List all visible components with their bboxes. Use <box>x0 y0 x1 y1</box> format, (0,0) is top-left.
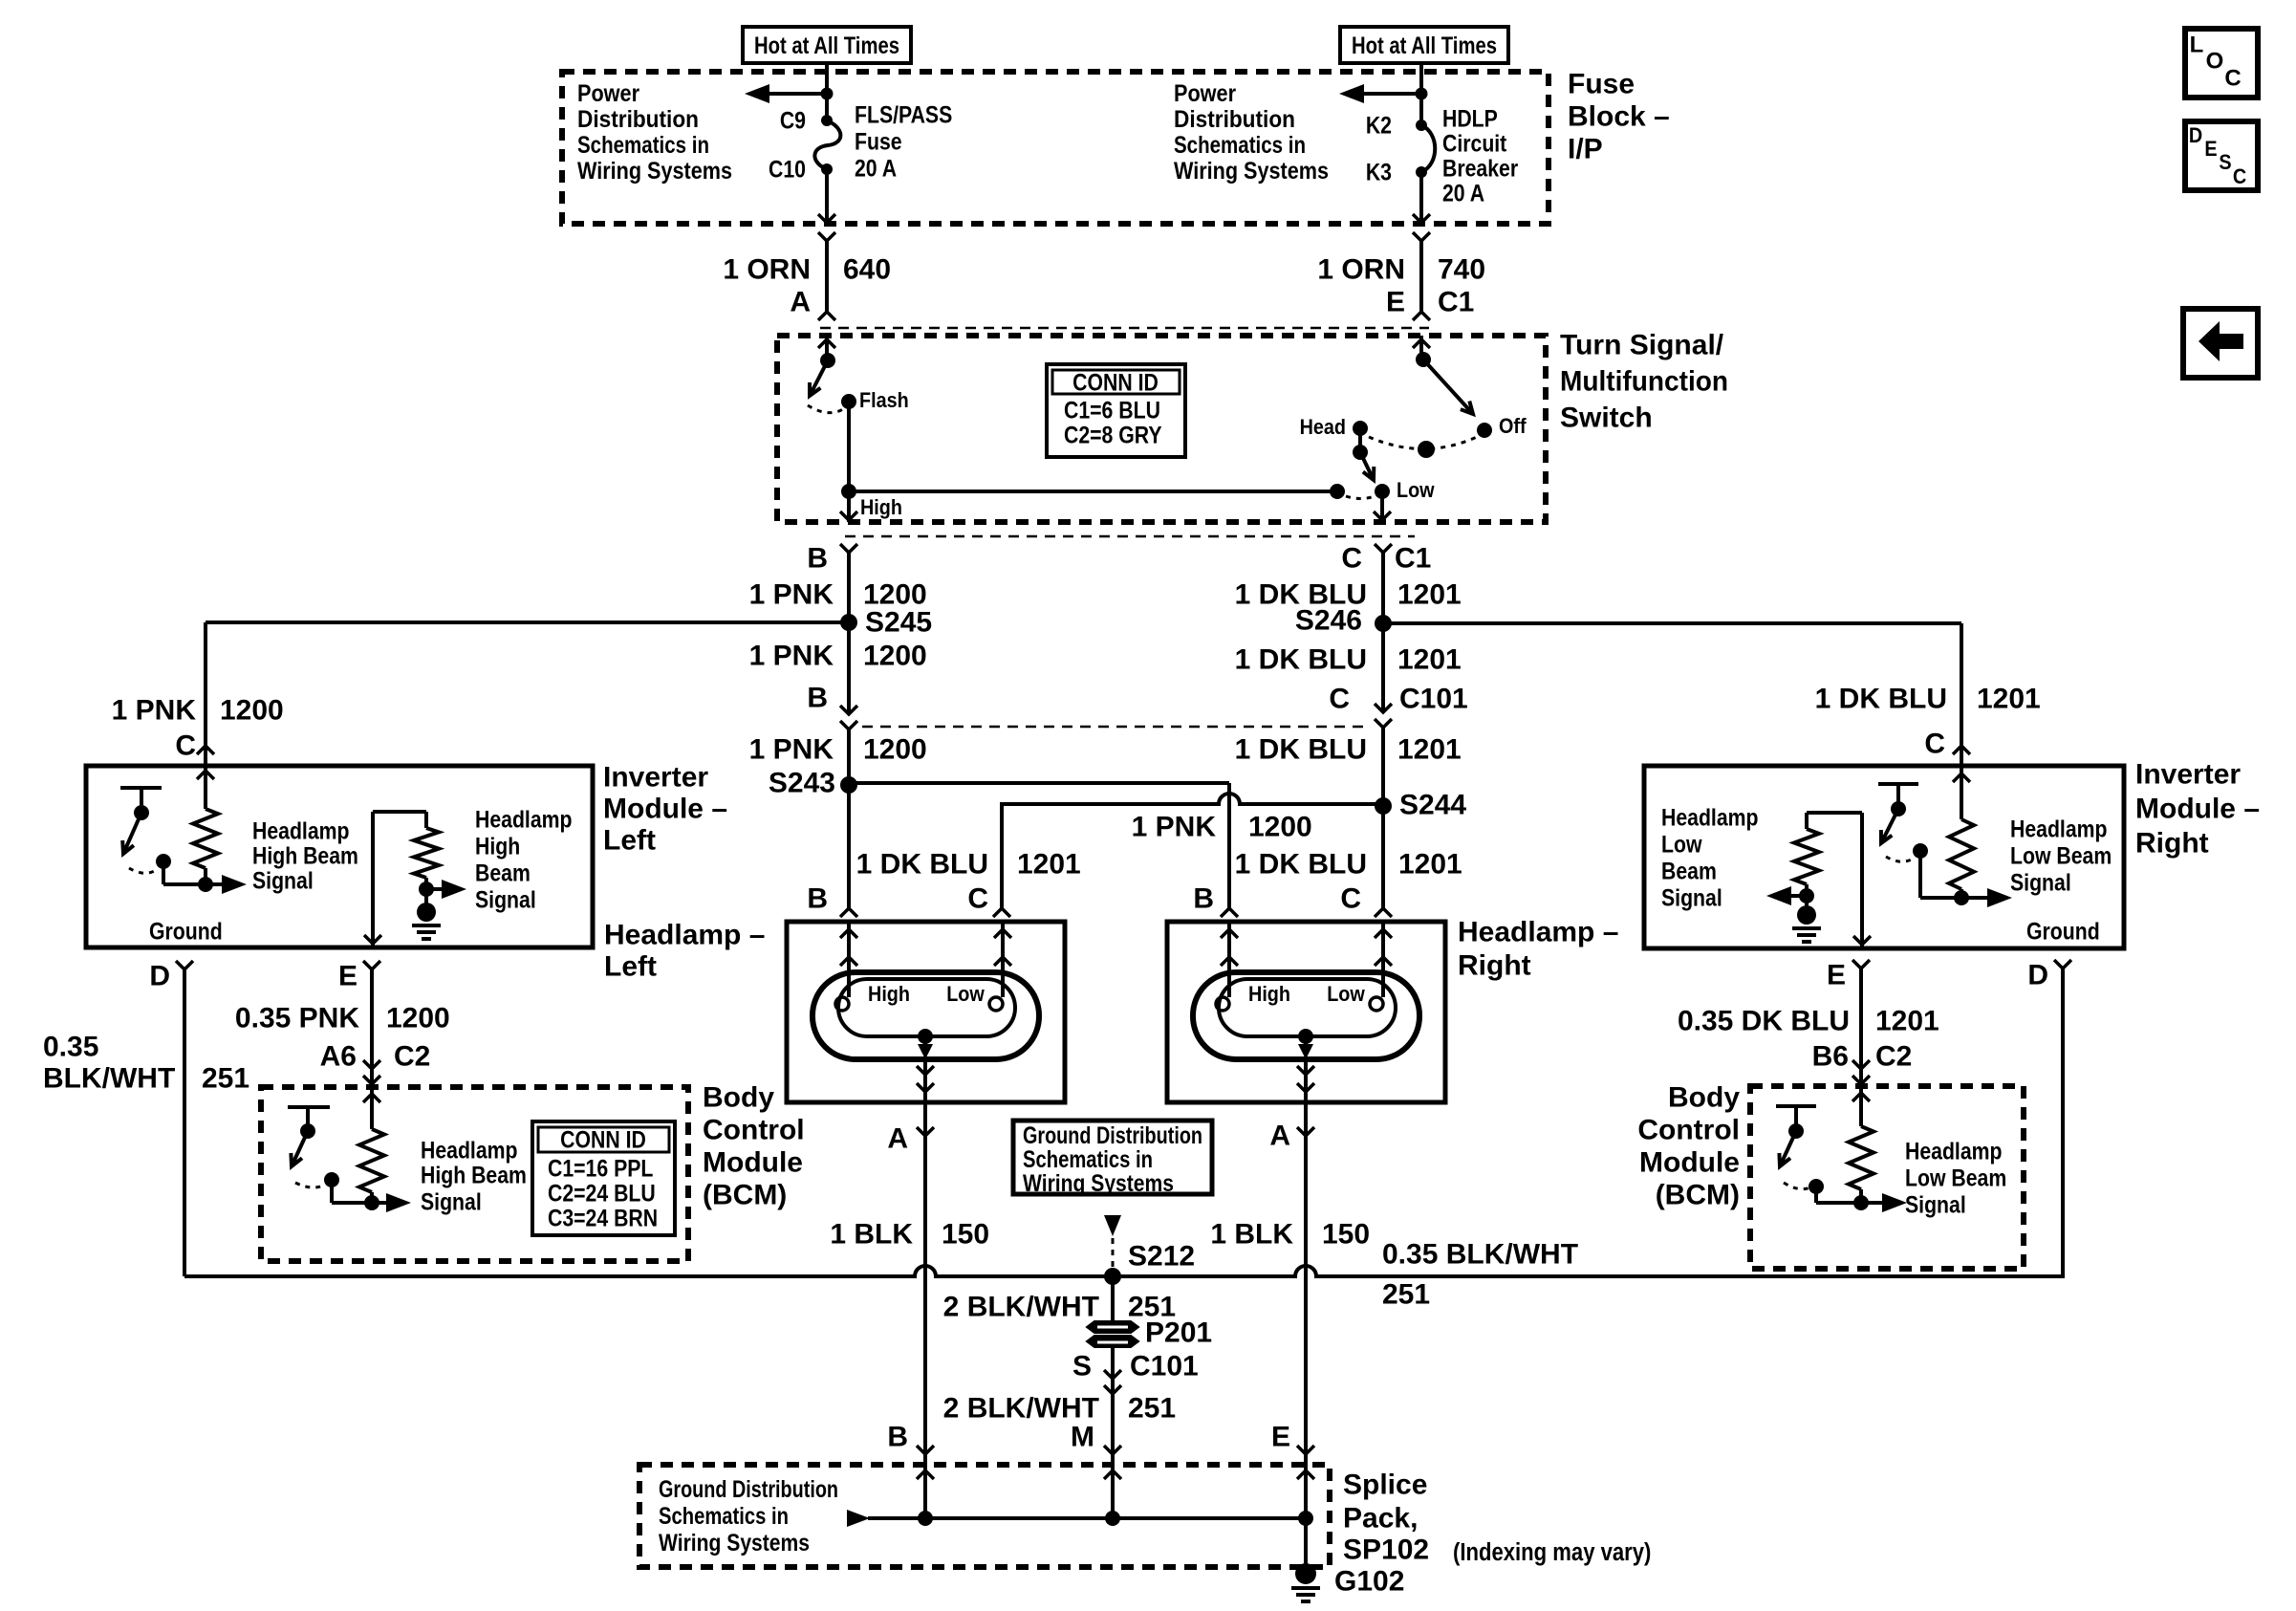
connector Y at D (inv left) <box>176 961 193 969</box>
connector Y at E (inv right) <box>1852 960 1870 969</box>
wire: C101 to S243 <box>847 729 851 785</box>
connector arrow out of fuse box (left) <box>818 214 835 223</box>
svg-text:0.35 BLK/WHT: 0.35 BLK/WHT <box>1382 1239 1578 1271</box>
svg-text:K2: K2 <box>1366 112 1392 139</box>
wire 1201: C to S246 <box>1381 553 1385 623</box>
terminal label C (inverter right) <box>1924 729 1945 760</box>
svg-text:Right: Right <box>1458 950 1531 982</box>
svg-text:D: D <box>2027 960 2048 991</box>
label: Body Control Module (BCM) left <box>703 1082 805 1211</box>
contact dot Flash <box>841 394 856 409</box>
wire: S246 branch to inverter right C <box>1383 623 1961 766</box>
wire label 1 DK BLU 1201 (above S246) <box>1235 579 1462 611</box>
label box: Hot at All Times (left) <box>743 27 911 63</box>
svg-text:P201: P201 <box>1145 1317 1212 1349</box>
switch pivot dot (BCM left) <box>300 1123 315 1139</box>
dashed travel arc (flash) <box>808 405 843 413</box>
dashed travel arc (head-off) <box>1369 437 1477 449</box>
svg-text:1 DK BLU: 1 DK BLU <box>1235 849 1367 881</box>
svg-text:Inverter: Inverter <box>603 762 708 794</box>
wire: resistor2 to node (inv left) <box>424 878 428 889</box>
label Low (headlamp left) <box>946 983 985 1006</box>
svg-text:Signal: Signal <box>421 1188 482 1215</box>
splice S244 <box>1375 790 1466 821</box>
switch contact bar (inv left) <box>120 788 162 813</box>
svg-text:D: D <box>149 961 170 992</box>
svg-text:Ground Distribution: Ground Distribution <box>659 1476 838 1503</box>
terminal arrows headlamp right <box>1221 929 1392 966</box>
svg-text:SP102: SP102 <box>1343 1535 1429 1566</box>
wire label 1 PNK 1200 (above S245) <box>749 579 927 611</box>
svg-text:1201: 1201 <box>1017 849 1081 881</box>
svg-text:Schematics in: Schematics in <box>1174 132 1306 159</box>
svg-text:1201: 1201 <box>1397 579 1462 611</box>
wire: internal branch top (inv right) <box>1807 813 1862 948</box>
junction dot 2 (inv right) <box>1799 888 1814 903</box>
label: Ground (inv left) <box>149 918 223 945</box>
svg-text:Headlamp: Headlamp <box>475 806 573 833</box>
wire: breaker output to connector E <box>1419 172 1423 224</box>
wire 1201: E to BCM right <box>1859 969 1863 1086</box>
connector entries headlamp left <box>840 908 1010 917</box>
svg-text:B: B <box>1193 883 1214 915</box>
wire label 0.35 DK BLU 1201 <box>1678 1006 1939 1037</box>
switch pivot dot (low) <box>1353 445 1368 460</box>
wire: S243 to headlamp right B <box>849 783 1229 910</box>
junction dot (BCM left) <box>364 1195 379 1210</box>
svg-text:High: High <box>1248 983 1290 1006</box>
contact dot Off <box>1477 423 1492 438</box>
svg-text:Low: Low <box>1327 983 1365 1006</box>
wire to resistor (BCM left) <box>370 1089 374 1129</box>
wire resistor to node (BCM left) <box>370 1192 374 1203</box>
wire label 1 BLK 150 (right) <box>1210 1219 1370 1251</box>
value label: HDLP Circuit Breaker 20 A <box>1442 105 1518 207</box>
splice bus with arrow <box>847 1510 1306 1527</box>
resistor R5 (low beam sense) <box>1794 829 1819 884</box>
svg-text:Headlamp –: Headlamp – <box>1458 917 1618 948</box>
ground symbol (inv left) <box>412 903 441 939</box>
connector Y at E C1 (right) <box>1413 232 1430 241</box>
note: Ground Distribution Schematics (splice pack) <box>659 1476 838 1557</box>
svg-text:20 A: 20 A <box>1442 180 1484 207</box>
wire: S246 to C101 <box>1381 623 1385 712</box>
svg-text:Signal: Signal <box>1905 1191 1966 1218</box>
dashed travel arc (inv right) <box>1886 857 1915 861</box>
switch arm (inv left) <box>122 813 141 854</box>
wire label 1 PNK 1200 (below S245) <box>749 641 927 672</box>
svg-text:Body: Body <box>703 1082 774 1114</box>
svg-text:1201: 1201 <box>1398 849 1462 881</box>
connector Y at B <box>840 544 857 553</box>
svg-text:1 ORN: 1 ORN <box>1317 254 1405 286</box>
fuse block I/P dashed box <box>562 72 1549 224</box>
svg-text:Schematics in: Schematics in <box>659 1503 789 1530</box>
svg-text:S: S <box>1072 1351 1092 1382</box>
junction dot on hot feed (right) <box>1416 88 1428 100</box>
label: Fuse Block - I/P <box>1568 69 1670 165</box>
CONN ID table (switch) <box>1047 364 1185 457</box>
svg-text:C10: C10 <box>769 156 806 183</box>
svg-text:C: C <box>1341 543 1362 575</box>
inverter module right box <box>1644 766 2124 948</box>
svg-text:Headlamp –: Headlamp – <box>604 920 765 951</box>
svg-text:1 PNK: 1 PNK <box>1132 812 1217 843</box>
wire resistor2 to node (inv right) <box>1805 884 1809 896</box>
terminal label B (C101 above) <box>807 683 828 714</box>
svg-text:Fuse: Fuse <box>855 128 902 155</box>
svg-text:Low Beam: Low Beam <box>1905 1165 2006 1191</box>
svg-text:0.35: 0.35 <box>43 1032 98 1063</box>
wire: hot feed into fuse FLS/PASS <box>825 63 829 120</box>
svg-text:M: M <box>1071 1422 1094 1453</box>
svg-text:Beam: Beam <box>1661 858 1717 884</box>
turn signal multifunction switch dashed box <box>777 336 1546 522</box>
svg-text:High: High <box>860 496 902 519</box>
contact dot (end of high line) <box>1330 484 1345 499</box>
label: Body Control Module (BCM) right <box>1637 1082 1740 1211</box>
svg-text:1 DK BLU: 1 DK BLU <box>1815 684 1947 715</box>
contact dot (BCM left) <box>324 1172 339 1187</box>
svg-text:High Beam: High Beam <box>252 842 358 869</box>
terminal label A (headlamp right) <box>1269 1121 1290 1152</box>
entry arrow (left switch) <box>818 339 835 348</box>
inline connector C2 (BCM left) <box>363 1060 380 1084</box>
svg-text:B: B <box>887 1422 908 1453</box>
svg-text:Circuit: Circuit <box>1442 130 1507 157</box>
svg-text:1201: 1201 <box>1397 734 1462 766</box>
svg-text:S246: S246 <box>1295 605 1362 637</box>
entry arrows into splice pack <box>917 1470 1314 1479</box>
splice bus junction dots <box>918 1511 1313 1526</box>
svg-text:Schematics in: Schematics in <box>1023 1146 1153 1173</box>
svg-text:E: E <box>338 961 357 992</box>
splice pack SP102 dashed box <box>639 1465 1330 1567</box>
svg-text:Head: Head <box>1300 416 1346 439</box>
terminal label B (switch) <box>807 543 828 575</box>
circuit breaker CB1 HDLP 20A <box>1416 120 1435 178</box>
position label Low <box>1397 479 1435 502</box>
wire: hot feed into circuit breaker <box>1419 63 1423 125</box>
svg-text:Wiring Systems: Wiring Systems <box>1174 158 1329 185</box>
wire label 1 DK BLU 1201 (headlamp right C) <box>1235 849 1462 881</box>
svg-text:150: 150 <box>1322 1219 1370 1251</box>
wire: high node to low switch area <box>849 490 1337 493</box>
signal arrow left (inv right) <box>1766 886 1807 905</box>
wire: C to resistor (inverter left) <box>204 765 207 809</box>
wire label 1 DK BLU 1201 (headlamp left C) <box>856 849 1081 881</box>
connector Y below headlamp right <box>1297 1127 1314 1136</box>
wire: contact to signal node (inv left) <box>163 861 206 884</box>
connector plane at switch A/E (thin dashed) <box>820 327 1429 330</box>
label: Headlamp Low Beam Signal (inv right) <box>2010 816 2112 896</box>
note text: Power Distribution Schematics (left) <box>577 80 732 185</box>
bulb inner envelope (headlamp right) <box>1219 979 1396 1036</box>
BCM left dashed box <box>261 1087 688 1261</box>
svg-text:C1=6 BLU: C1=6 BLU <box>1064 397 1160 424</box>
label: Inverter Module - Right <box>2135 759 2260 860</box>
fuse F1 FLS/PASS 20A <box>814 115 840 175</box>
wire: P201 to C101 <box>1111 1346 1115 1396</box>
wire 251: C101 to splice pack M <box>1111 1396 1115 1518</box>
svg-text:Body: Body <box>1668 1082 1740 1114</box>
wire to resistor 2 (inv right) <box>1805 813 1809 829</box>
connector arrow out of fuse box (right) <box>1413 214 1430 223</box>
svg-text:Hot at All Times: Hot at All Times <box>754 33 899 59</box>
wire to ground (inv right) <box>1805 896 1809 907</box>
junction dot high node <box>841 484 856 499</box>
switch pivot dot (inv right) <box>1891 801 1906 816</box>
terminal label A (headlamp left) <box>887 1123 908 1155</box>
svg-text:E: E <box>1386 287 1405 318</box>
wire label 0.35 BLK/WHT 251 (left) <box>43 1032 249 1095</box>
svg-text:C1: C1 <box>1395 543 1431 575</box>
svg-text:1201: 1201 <box>1977 684 2041 715</box>
svg-text:B: B <box>807 543 828 575</box>
svg-text:CONN ID: CONN ID <box>1072 369 1159 396</box>
contact dot (inv right) <box>1913 843 1928 859</box>
label: Headlamp Low Beam Signal 4-line (inv right) <box>1661 804 1759 911</box>
svg-text:Low: Low <box>1397 479 1435 502</box>
switch arm (inv right) <box>1881 809 1898 843</box>
position label Off <box>1499 415 1527 438</box>
terminal labels B C (headlamp left) <box>807 883 988 915</box>
wire: head contact to low pivot <box>1358 428 1362 452</box>
svg-text:251: 251 <box>202 1063 249 1095</box>
dashed travel arc (BCM left) <box>295 1183 325 1187</box>
svg-text:Hot at All Times: Hot at All Times <box>1352 33 1497 59</box>
svg-text:(BCM): (BCM) <box>703 1180 787 1211</box>
wire resistor to node (BCM right) <box>1859 1189 1863 1203</box>
svg-text:Right: Right <box>2135 828 2209 860</box>
svg-text:251: 251 <box>1382 1279 1430 1311</box>
dashed travel arc (low contact) <box>1346 496 1375 499</box>
switch arm (flash/high) <box>810 360 828 396</box>
wire label 1 ORN 640 <box>723 254 891 286</box>
svg-text:E: E <box>1827 960 1846 991</box>
switch arm (BCM left) <box>291 1131 308 1166</box>
wire label 1 PNK 1200 (headlamp right B) <box>1132 812 1312 843</box>
bulb inner envelope (headlamp left) <box>838 979 1015 1036</box>
bulb common node (headlamp right) <box>1298 1029 1313 1044</box>
svg-text:1 PNK: 1 PNK <box>112 695 197 727</box>
wire 150: headlamp right A to splice pack E <box>1304 1102 1308 1518</box>
wire contact to node (inv right) <box>1920 851 1961 898</box>
wire: to resistor 2 (inv left) <box>424 812 428 828</box>
switch pivot dot (BCM right) <box>1788 1123 1804 1139</box>
svg-text:C: C <box>1340 883 1361 915</box>
svg-text:Module –: Module – <box>603 794 727 825</box>
svg-text:C2: C2 <box>1875 1041 1912 1073</box>
terminal label E (inv left) <box>338 961 357 992</box>
label: Headlamp - Right <box>1458 917 1618 982</box>
bulb outer envelope (headlamp right) <box>1193 972 1419 1059</box>
svg-text:Distribution: Distribution <box>577 106 699 133</box>
svg-text:C2: C2 <box>394 1041 430 1073</box>
svg-text:S243: S243 <box>769 768 835 799</box>
inline connector C101 (ground path) <box>1104 1370 1121 1394</box>
svg-text:C: C <box>2233 165 2246 188</box>
pin label C10 <box>769 156 806 183</box>
svg-text:1 DK BLU: 1 DK BLU <box>1235 644 1367 676</box>
svg-text:Beam: Beam <box>475 860 531 886</box>
wire label 2 BLK/WHT 251 (below C101) <box>943 1393 1176 1425</box>
label: Headlamp High Beam Signal 4-line (inv left) <box>475 806 573 913</box>
svg-text:High: High <box>475 833 520 860</box>
wire into flash switch <box>825 336 829 360</box>
wire label 0.35 PNK 1200 <box>235 1003 450 1034</box>
wire label 1 DK BLU 1201 (inverter right drop) <box>1815 684 2041 715</box>
svg-text:C1=16 PPL: C1=16 PPL <box>548 1155 653 1182</box>
wire 251: D to ground bus (inv left) <box>183 969 186 1276</box>
terminal label C (inverter left) <box>175 730 196 762</box>
wire: internal ground branch top (inv left) <box>373 812 426 947</box>
contact dot Low <box>1375 484 1390 499</box>
svg-text:Wiring Systems: Wiring Systems <box>1023 1170 1174 1197</box>
grommet P201 <box>1087 1317 1212 1349</box>
signal arrow (inv right) <box>1961 888 2012 907</box>
svg-text:C3=24 BRN: C3=24 BRN <box>548 1205 658 1231</box>
svg-text:A: A <box>887 1123 908 1155</box>
switch contact bar (BCM left) <box>288 1107 330 1131</box>
resistor R3 (BCM left) <box>359 1129 384 1192</box>
signal arrow (inv left) <box>206 875 247 894</box>
label: Headlamp Low Beam Signal (BCM right) <box>1905 1138 2006 1218</box>
svg-text:Distribution: Distribution <box>1174 106 1295 133</box>
wire into headlamp switch <box>1419 336 1423 359</box>
svg-text:FLS/PASS: FLS/PASS <box>855 101 952 128</box>
splice S246 <box>1295 605 1392 637</box>
label: Headlamp High Beam Signal (inv left) <box>252 817 358 894</box>
connector plane C101 (thin dashed) <box>862 726 1370 729</box>
svg-text:Off: Off <box>1499 415 1527 438</box>
svg-text:C1: C1 <box>1438 287 1474 318</box>
wire label 1 PNK 1200 (below C101) <box>749 734 927 766</box>
svg-text:C9: C9 <box>780 107 806 134</box>
ground bus 251 (hops over BLK 150 wires) <box>184 1266 2063 1276</box>
exit arrow E inside (inv left) <box>364 935 381 944</box>
wire 1200: E to BCM left <box>370 969 374 1087</box>
wire to ground (inv left) <box>424 889 428 904</box>
connector Y at D (inv right) <box>2054 960 2071 969</box>
svg-text:A: A <box>1269 1121 1290 1152</box>
svg-text:0.35 PNK: 0.35 PNK <box>235 1003 359 1034</box>
svg-text:740: 740 <box>1438 254 1485 286</box>
resistor R1 (high beam load) <box>193 809 218 868</box>
terminal label D (inv left) <box>149 961 170 992</box>
connector Y at E (inv left) <box>363 961 380 969</box>
junction dot (BCM right) <box>1853 1195 1869 1210</box>
svg-text:1 PNK: 1 PNK <box>749 734 834 766</box>
svg-text:Breaker: Breaker <box>1442 155 1518 182</box>
switch pivot dot (off/head) <box>1416 352 1431 367</box>
svg-text:Headlamp: Headlamp <box>1661 804 1759 831</box>
svg-text:G102: G102 <box>1334 1566 1404 1598</box>
svg-text:L: L <box>2190 33 2204 58</box>
contact dot (BCM right) <box>1809 1179 1824 1194</box>
svg-text:B6: B6 <box>1812 1041 1849 1073</box>
label: Turn Signal / Multifunction Switch <box>1560 330 1728 434</box>
svg-text:(Indexing may vary): (Indexing may vary) <box>1453 1538 1651 1566</box>
switch arm (off/head) <box>1423 359 1473 414</box>
reference arrow to S212 <box>1104 1215 1121 1236</box>
label: Ground (inv right) <box>2026 918 2100 945</box>
svg-text:Wiring Systems: Wiring Systems <box>659 1530 810 1557</box>
svg-text:A6: A6 <box>320 1041 357 1073</box>
label Low (headlamp right) <box>1327 983 1365 1006</box>
svg-text:Low: Low <box>1661 831 1702 858</box>
connector entry inverter right C <box>1953 746 1970 754</box>
exit arrow E inside (inv right) <box>1853 936 1871 945</box>
connector plane C1 (thin dashed) <box>845 535 1415 538</box>
svg-text:CONN ID: CONN ID <box>560 1126 646 1153</box>
wire: S244 to headlamp left C (hops over B wire) <box>1002 794 1383 910</box>
svg-text:Headlamp: Headlamp <box>252 817 350 844</box>
CONN ID table (BCM left) <box>532 1121 675 1235</box>
wire contact to node (BCM left) <box>332 1180 372 1203</box>
svg-text:High Beam: High Beam <box>421 1162 527 1188</box>
wire label 1 ORN 740 <box>1317 254 1485 286</box>
svg-text:C101: C101 <box>1130 1351 1199 1382</box>
entry arrow C (inverter right) <box>1953 773 1970 782</box>
svg-text:Ground: Ground <box>149 918 223 945</box>
svg-text:C: C <box>2224 66 2241 92</box>
svg-text:1200: 1200 <box>220 695 284 727</box>
wire 251: D to ground bus (inv right) <box>2063 969 2065 1276</box>
svg-text:D: D <box>2189 124 2202 147</box>
wire label 1 BLK 150 (left) <box>830 1219 989 1251</box>
svg-text:S245: S245 <box>865 607 932 639</box>
svg-text:640: 640 <box>843 254 891 286</box>
note text: Power Distribution Schematics (right) <box>1174 80 1329 185</box>
entry arrow C (inverter left) <box>197 771 214 779</box>
svg-text:(BCM): (BCM) <box>1656 1180 1740 1211</box>
svg-text:Wiring Systems: Wiring Systems <box>577 158 732 185</box>
svg-text:Signal: Signal <box>252 867 314 894</box>
svg-text:K3: K3 <box>1366 159 1392 185</box>
svg-text:2 BLK/WHT: 2 BLK/WHT <box>943 1292 1099 1323</box>
entry arrow (BCM left) <box>363 1094 380 1102</box>
splice S212 <box>1104 1241 1195 1286</box>
pin label K2 <box>1366 112 1392 139</box>
svg-text:1 BLK: 1 BLK <box>830 1219 913 1251</box>
signal arrow (BCM left) <box>372 1193 411 1212</box>
contact dot Head <box>1353 421 1368 436</box>
dashed travel arc (BCM right) <box>1784 1183 1810 1189</box>
svg-text:Control: Control <box>1637 1115 1740 1146</box>
inline connector C101 (left pair) <box>840 706 857 729</box>
wire 640: 1 ORN fuse to switch <box>825 241 829 312</box>
terminal labels B M E (splice pack) <box>887 1422 1290 1453</box>
icon box back-arrow <box>2183 309 2258 378</box>
connector entries headlamp right <box>1221 908 1392 917</box>
svg-text:Switch: Switch <box>1560 403 1653 434</box>
svg-text:Headlamp: Headlamp <box>2010 816 2108 842</box>
switch arm (low) <box>1360 452 1374 480</box>
svg-text:Control: Control <box>703 1115 805 1146</box>
exit connector marks (headlamp left) <box>917 1059 934 1102</box>
terminal label E / C1 <box>1386 287 1474 318</box>
wire 150: headlamp left A to splice pack B <box>923 1102 927 1518</box>
svg-text:150: 150 <box>942 1219 989 1251</box>
wire 251: S212 down to P201 <box>1111 1276 1115 1324</box>
svg-text:B: B <box>807 683 828 714</box>
note: Ground Distribution Schematics in Wiring Systems <box>1023 1122 1202 1197</box>
terminal label D (inv right) <box>2027 960 2048 991</box>
svg-text:Left: Left <box>603 825 656 857</box>
svg-text:C2=24 BLU: C2=24 BLU <box>548 1180 656 1207</box>
svg-text:1200: 1200 <box>1248 812 1312 843</box>
